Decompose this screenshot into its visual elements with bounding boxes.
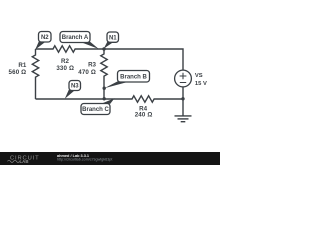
svg-text:Branch C: Branch C [82, 107, 109, 113]
svg-text:470 Ω: 470 Ω [78, 69, 96, 76]
svg-text:N3: N3 [71, 84, 79, 90]
svg-text:15 V: 15 V [195, 81, 207, 87]
svg-text:N1: N1 [109, 35, 117, 41]
svg-text:330 Ω: 330 Ω [56, 65, 74, 72]
svg-text:http://circuitlab.com/c7sgwtgk: http://circuitlab.com/c7sgwtgk63pt [57, 157, 112, 161]
svg-text:240 Ω: 240 Ω [135, 111, 153, 118]
svg-text:Branch B: Branch B [120, 74, 147, 80]
svg-text:560 Ω: 560 Ω [9, 69, 27, 76]
svg-text:VS: VS [195, 73, 203, 79]
svg-text:Branch A: Branch A [62, 35, 89, 41]
svg-text:R1: R1 [18, 62, 26, 69]
svg-text:R2: R2 [61, 58, 69, 65]
svg-text:N2: N2 [41, 35, 49, 41]
svg-text:R3: R3 [88, 62, 96, 69]
svg-text:LAB: LAB [20, 159, 29, 164]
